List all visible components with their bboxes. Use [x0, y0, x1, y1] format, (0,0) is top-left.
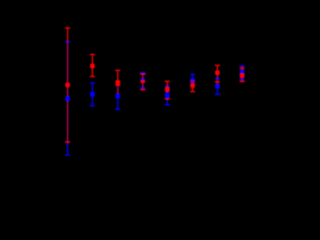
group 6 blue top cap [190, 74, 195, 75]
group 3 blue errorbar line lower [117, 98, 118, 109]
group 8 red circle marker [240, 73, 245, 78]
group 1 blue errorbar line lower [67, 142, 68, 155]
group 7 red circle marker [215, 70, 220, 75]
group 5 blue top cap [165, 86, 170, 87]
group 4 red top cap [140, 74, 145, 75]
group 7 blue inner top cap [215, 78, 220, 79]
group 6 overlap line below square [192, 83, 193, 86]
group 6 red bottom cap [190, 91, 195, 92]
group 7 (x=217.4) red errorbar line upper [217, 65, 218, 72]
group 2 blue bottom cap [90, 105, 95, 106]
group 6 (x=192.6) blue errorbar line [192, 74, 193, 86]
group 8 blue bottom cap [240, 79, 245, 80]
group 4 blue bottom cap [140, 87, 145, 88]
group 3 red inner cap [115, 85, 120, 86]
group 4 blue top cap [140, 72, 145, 73]
group 5 blue errorbar line lower [167, 92, 168, 105]
group 2 red top cap [90, 54, 95, 55]
group 7 red bottom cap [215, 81, 220, 82]
group 5 blue square marker [165, 93, 170, 98]
error-bar chart on black background [0, 0, 300, 185]
group 8 red top cap [240, 68, 245, 69]
group 3 red top cap [115, 70, 120, 71]
group 5 (x=167.3) red errorbar line upper [167, 81, 168, 87]
group 4 blue square marker partial [141, 79, 146, 81]
group 8 red bottom cap [240, 81, 245, 82]
group 8 blue top cap [240, 65, 245, 66]
group 2 red circle marker [90, 64, 95, 69]
group 1 blue top cap [65, 41, 70, 42]
group 2 blue top cap [90, 82, 95, 83]
group 4 red marker partial [141, 80, 146, 83]
group 8 (x=242.1) overlap line red+blue [241, 67, 242, 82]
group 5 red bottom cap [165, 98, 170, 99]
group 5 red top cap [165, 81, 170, 82]
group 3 (x=117.8) red errorbar line upper [117, 70, 118, 86]
group 2 (x=92.4) red errorbar line [92, 55, 93, 77]
group 3 blue bottom cap [115, 109, 120, 110]
group 7 blue errorbar line lower [217, 89, 218, 95]
group 1 overlap line red+blue [67, 42, 68, 142]
group 2 blue square marker [90, 92, 95, 97]
group 3 red circle marker [115, 80, 120, 85]
group 1 red top cap [65, 27, 70, 28]
group 1 red bottom cap [65, 141, 70, 142]
group 7 blue square marker [215, 84, 220, 89]
group 4 (x=142.8) overlap line red+blue [142, 73, 143, 89]
group 4 red bottom cap [140, 89, 145, 90]
group 6 red circle marker [190, 83, 195, 88]
group 2 blue errorbar line [92, 83, 93, 106]
group 1 red circle marker [65, 83, 70, 88]
group 6 red cap behind square [190, 80, 195, 81]
group 2 red bottom cap [90, 76, 95, 77]
group 5 blue bottom cap [165, 104, 170, 105]
group 3 blue square marker [116, 94, 121, 99]
group 5 red circle marker [165, 87, 170, 92]
group 7 overlap line red+blue [217, 75, 218, 84]
group 8 blue square marker [240, 70, 245, 74]
group 1 blue square marker [65, 96, 70, 101]
group 6 blue square marker [190, 78, 195, 83]
group 7 red top cap [215, 65, 220, 66]
group 3 overlap line red+blue [117, 86, 118, 94]
group 7 blue bottom cap [215, 94, 220, 95]
group 6 red errorbar line lower [192, 86, 193, 92]
group 1 blue bottom cap [65, 154, 70, 155]
group 1 (x=67.6) red errorbar line upper [67, 28, 68, 42]
group 5 red line crossing blue cap [167, 86, 168, 88]
